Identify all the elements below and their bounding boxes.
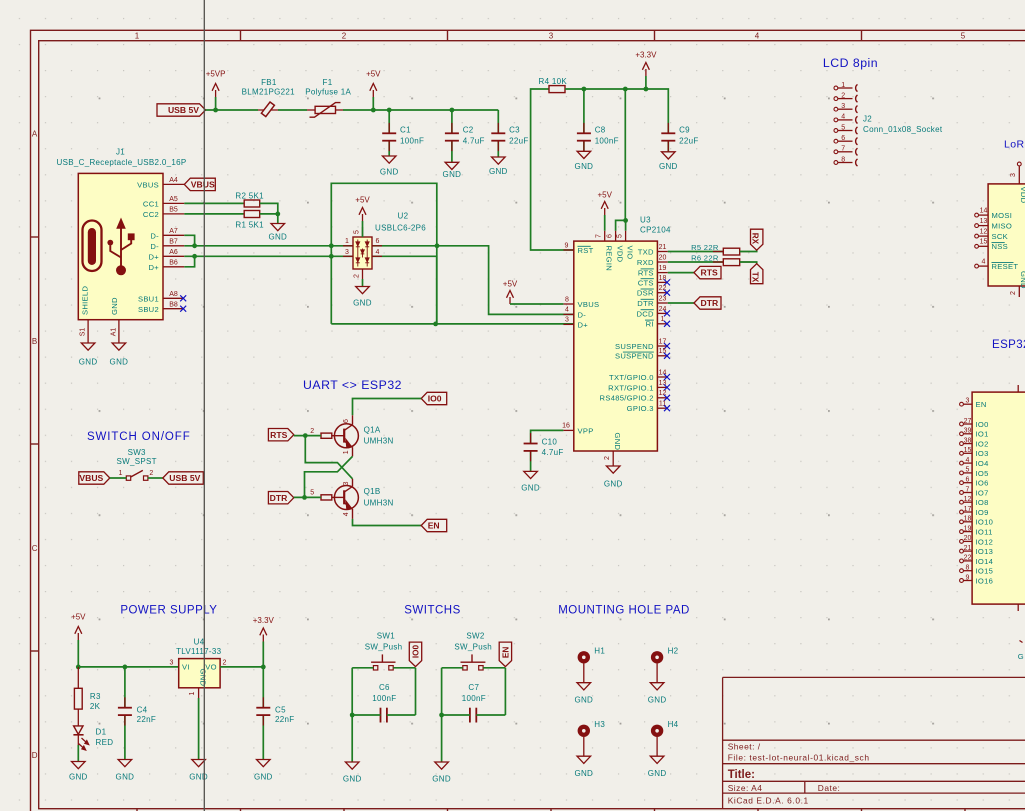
svg-text:+5V: +5V xyxy=(71,613,86,622)
capacitor C9 xyxy=(667,123,669,133)
ground under J1 shield xyxy=(81,343,95,350)
svg-text:GPIO.3: GPIO.3 xyxy=(627,404,654,413)
global label DTR at Q1B xyxy=(268,492,293,504)
svg-text:VBUS: VBUS xyxy=(137,180,159,189)
no-connect U3 pin 12 xyxy=(664,395,670,401)
wire D- A7 jog xyxy=(184,235,194,246)
U2 pin 2 bottom xyxy=(362,269,364,279)
svg-text:GND: GND xyxy=(613,433,622,451)
svg-text:DTR: DTR xyxy=(637,299,654,308)
wire VDD VIO branch xyxy=(616,220,626,230)
svg-text:IO2: IO2 xyxy=(976,440,989,449)
ESP32 bottom pin stub xyxy=(1017,604,1019,611)
svg-text:IO0: IO0 xyxy=(976,420,989,429)
junction D- at J1 xyxy=(192,243,197,248)
junction VDD branch xyxy=(623,87,628,92)
wire D- through U2 xyxy=(331,246,574,315)
svg-text:+3.3V: +3.3V xyxy=(253,616,275,625)
ground under J1 gnd pin xyxy=(112,343,126,350)
svg-text:A5: A5 xyxy=(169,196,178,203)
transistor Q1B UMH3N xyxy=(334,486,358,510)
svg-text:20: 20 xyxy=(659,254,667,261)
U3 pin 16 VPP xyxy=(563,429,573,431)
svg-text:4: 4 xyxy=(343,512,350,516)
svg-text:SHIELD: SHIELD xyxy=(80,286,89,315)
svg-text:RXT/GPIO.1: RXT/GPIO.1 xyxy=(608,383,654,392)
svg-text:RTS: RTS xyxy=(701,268,718,278)
svg-text:H3: H3 xyxy=(594,720,605,729)
svg-text:IO10: IO10 xyxy=(976,518,994,527)
ground under C5 xyxy=(257,760,271,767)
U2 pin 5 top xyxy=(362,227,364,237)
wire VDD/VIO vertical xyxy=(624,89,626,220)
svg-text:SW1: SW1 xyxy=(377,632,395,641)
global label DTR at U3 xyxy=(694,297,721,309)
svg-text:CTS: CTS xyxy=(638,278,654,287)
svg-text:LCD 8pin: LCD 8pin xyxy=(823,56,878,70)
svg-text:UMH3N: UMH3N xyxy=(364,498,394,507)
no-connect U3 pin 13 xyxy=(664,384,670,390)
svg-text:VDD: VDD xyxy=(1019,187,1025,204)
svg-text:9: 9 xyxy=(966,574,970,581)
ground under U3 xyxy=(606,466,620,473)
svg-text:22nF: 22nF xyxy=(275,715,294,724)
ESP32 pin 22 IO14 xyxy=(960,559,964,563)
svg-text:+3.3V: +3.3V xyxy=(635,51,657,60)
wire FB1 to F1 xyxy=(278,109,307,111)
U3 pin 13 RXT/GPIO.1 xyxy=(657,386,667,388)
no-connect U3 pin 17 xyxy=(664,343,670,349)
wire SW2 right down to cap xyxy=(504,668,506,715)
ESP32 pin 17 IO9 xyxy=(960,510,964,514)
svg-text:GND: GND xyxy=(648,695,667,704)
mounting hole H3 xyxy=(578,725,590,737)
svg-text:GND: GND xyxy=(343,775,362,784)
svg-text:C2: C2 xyxy=(463,126,474,135)
ground under C1 xyxy=(382,156,396,163)
U4 pin 1 gnd xyxy=(198,688,200,698)
svg-text:27: 27 xyxy=(964,418,972,425)
svg-text:1: 1 xyxy=(119,470,123,477)
svg-text:SUSPEND: SUSPEND xyxy=(615,352,654,361)
connector J1 USB_C_Receptacle_USB2.0_16P xyxy=(78,173,163,319)
wire SW2 right xyxy=(483,667,505,669)
svg-text:3: 3 xyxy=(170,660,174,667)
global label VBUS at J1 xyxy=(184,178,215,190)
wire C10 bottom lead xyxy=(530,451,532,472)
svg-text:VPP: VPP xyxy=(578,426,594,435)
U2 pin 6 xyxy=(372,245,382,247)
svg-text:DTR: DTR xyxy=(701,298,719,308)
wire D+ to U3 xyxy=(436,323,574,325)
svg-text:B8: B8 xyxy=(169,301,178,308)
wire R5 to RX xyxy=(740,250,757,251)
wire RST vertical from R4 xyxy=(531,89,574,250)
svg-text:5: 5 xyxy=(841,124,845,131)
J1 usb icon xyxy=(83,221,102,272)
svg-text:A: A xyxy=(32,130,38,139)
U3 pin 15 SUSPEND xyxy=(657,355,667,357)
svg-text:CC1: CC1 xyxy=(143,199,159,208)
svg-text:IO16: IO16 xyxy=(976,576,994,585)
wire CC1 to R2 xyxy=(184,202,244,204)
svg-text:GND: GND xyxy=(574,769,593,778)
ic U2 USBLC6-2P6 xyxy=(353,237,372,269)
Q1B pin 4 emitter stub xyxy=(352,509,354,519)
svg-text:EN: EN xyxy=(976,400,987,409)
wire C3 bottom lead xyxy=(497,141,499,157)
LoRa pin 3 VDD xyxy=(1017,162,1021,166)
svg-text:+5VP: +5VP xyxy=(206,70,226,79)
U3 pin 4 D- xyxy=(563,313,573,315)
junction U2 left loop D+ xyxy=(329,254,334,259)
svg-text:100nF: 100nF xyxy=(595,136,619,145)
svg-text:DCD: DCD xyxy=(636,309,654,318)
svg-text:4: 4 xyxy=(755,32,760,41)
U3 pin 19 RTS xyxy=(657,272,667,274)
svg-text:6: 6 xyxy=(607,234,614,238)
svg-text:TX: TX xyxy=(751,272,760,283)
ground under C4 xyxy=(118,760,132,767)
wire R6 to TX xyxy=(740,262,757,264)
ground under C10 xyxy=(524,471,538,478)
svg-text:3: 3 xyxy=(343,481,350,485)
wire U2 pin2 to gnd xyxy=(362,279,364,287)
svg-text:USBLC6-2P6: USBLC6-2P6 xyxy=(375,224,426,233)
junction DTR branch xyxy=(302,495,307,500)
ground under SW1 xyxy=(345,762,359,769)
svg-text:5: 5 xyxy=(310,490,314,497)
J1 pin B8 xyxy=(163,308,184,310)
ground under C3 xyxy=(492,157,506,164)
svg-text:File: test-Iot-neural-01.kicad: File: test-Iot-neural-01.kicad_sch xyxy=(728,752,870,762)
global label IO0 at SW1 xyxy=(409,642,421,667)
svg-text:VI: VI xyxy=(182,663,190,672)
J2 pin 2 xyxy=(834,97,838,101)
junction C5 tap xyxy=(261,665,266,670)
ESP32 pin 20 IO12 xyxy=(960,540,964,544)
svg-text:IO4: IO4 xyxy=(976,459,989,468)
resistor R4 10K xyxy=(549,86,565,93)
svg-text:USB_C_Receptacle_USB2.0_16P: USB_C_Receptacle_USB2.0_16P xyxy=(57,158,187,167)
svg-text:VBUS: VBUS xyxy=(578,300,600,309)
junction +5VP node xyxy=(213,108,218,113)
svg-text:B6: B6 xyxy=(169,259,178,266)
wire SW1 left xyxy=(352,667,373,669)
ESP32 pin 21 IO13 xyxy=(960,549,964,553)
capacitor C4 xyxy=(124,697,126,707)
no-connect U3 pin 22 xyxy=(664,290,670,296)
svg-text:C3: C3 xyxy=(509,126,520,135)
no-connect J1 SBU2 xyxy=(180,306,186,312)
svg-text:RI: RI xyxy=(646,320,654,329)
svg-text:IO3: IO3 xyxy=(976,449,989,458)
wire C2 bottom lead xyxy=(451,141,453,163)
wire RTS to Q1A base xyxy=(294,435,321,437)
svg-text:C: C xyxy=(32,544,38,553)
svg-text:RS485/GPIO.2: RS485/GPIO.2 xyxy=(600,394,654,403)
svg-text:Polyfuse 1A: Polyfuse 1A xyxy=(305,88,351,97)
svg-text:8: 8 xyxy=(565,296,569,303)
svg-text:J2: J2 xyxy=(863,115,872,124)
svg-text:38: 38 xyxy=(964,437,972,444)
svg-text:B: B xyxy=(32,337,37,346)
svg-text:GND: GND xyxy=(198,669,207,687)
svg-text:GND: GND xyxy=(489,167,508,176)
ground under D1 xyxy=(72,762,86,769)
wire RTS pin to label xyxy=(668,272,694,274)
wire C8 bottom lead xyxy=(583,141,585,152)
power +3.3V at supply xyxy=(262,642,264,667)
svg-text:39: 39 xyxy=(964,428,972,435)
svg-text:SUSPEND: SUSPEND xyxy=(615,342,654,351)
wire IO0 to Q1A collector xyxy=(353,399,422,416)
svg-text:1: 1 xyxy=(345,238,349,245)
svg-text:2: 2 xyxy=(223,660,227,667)
wire C3 top lead xyxy=(497,110,499,133)
J2 pin 5 xyxy=(834,129,838,133)
svg-text:F1: F1 xyxy=(323,78,333,87)
svg-text:R4 10K: R4 10K xyxy=(539,77,568,86)
svg-text:RST: RST xyxy=(578,246,594,255)
wire C6 right lead xyxy=(387,714,416,716)
wire D- main xyxy=(184,245,331,247)
capacitor C6 horizontal xyxy=(380,708,382,723)
svg-text:IO9: IO9 xyxy=(976,508,989,517)
J2 pin 8 xyxy=(834,161,838,165)
svg-text:4.7uF: 4.7uF xyxy=(542,448,564,457)
Q1B base resistor xyxy=(321,495,332,500)
svg-text:RED: RED xyxy=(96,738,114,747)
U2 pin 4 xyxy=(372,255,382,257)
svg-text:S1: S1 xyxy=(80,328,87,337)
wire U4 gnd xyxy=(198,698,200,760)
svg-text:IO0: IO0 xyxy=(428,394,442,404)
capacitor C1 xyxy=(388,123,390,133)
ground under R1/R2 xyxy=(271,224,285,231)
svg-text:SW_Push: SW_Push xyxy=(365,643,403,652)
ESP32 pin 5 IO5 xyxy=(960,471,964,475)
svg-text:13: 13 xyxy=(980,218,988,225)
ESP32 pin 8 IO15 xyxy=(960,569,964,573)
svg-text:14: 14 xyxy=(980,208,988,215)
U3 pin 3 D+ xyxy=(563,323,573,325)
J1 pin B5 xyxy=(163,213,184,215)
ESP32 pin 39 IO1 xyxy=(960,432,964,436)
wire VIO stub xyxy=(625,220,627,230)
global label RTS at Q1A xyxy=(268,429,293,441)
svg-text:DSR: DSR xyxy=(637,289,654,298)
wire RXD to R6 xyxy=(668,261,724,263)
svg-text:100nF: 100nF xyxy=(400,136,424,145)
J2 pin 7 xyxy=(834,150,838,154)
wire SW2 left down to cap xyxy=(441,668,443,762)
svg-text:U2: U2 xyxy=(398,212,409,221)
svg-text:R3: R3 xyxy=(90,692,101,701)
LoRa pin 13 MISO xyxy=(975,224,979,228)
ground under H2 xyxy=(650,683,664,690)
led D1 RED xyxy=(77,709,79,726)
ESP32 stray pin tick xyxy=(1020,641,1023,643)
resistor R2 5K1 xyxy=(244,200,260,207)
svg-text:BLM21PG221: BLM21PG221 xyxy=(242,88,296,97)
svg-text:GND: GND xyxy=(110,358,129,367)
svg-text:1: 1 xyxy=(135,32,140,41)
svg-text:2: 2 xyxy=(604,456,611,460)
svg-text:4: 4 xyxy=(841,114,845,121)
svg-text:5: 5 xyxy=(966,467,970,474)
svg-text:3: 3 xyxy=(966,398,970,405)
wire VBUS to SW3 xyxy=(110,477,127,479)
svg-text:Sheet: /: Sheet: / xyxy=(728,742,761,752)
svg-text:USB 5V: USB 5V xyxy=(168,105,199,115)
svg-text:1: 1 xyxy=(841,82,845,89)
svg-text:8: 8 xyxy=(841,156,845,163)
svg-text:C7: C7 xyxy=(468,683,479,692)
svg-text:SW_SPST: SW_SPST xyxy=(117,457,157,466)
junction C7 left xyxy=(439,713,444,718)
svg-text:D+: D+ xyxy=(148,252,159,261)
capacitor C10 xyxy=(530,433,532,443)
global label RTS at U3 xyxy=(694,266,721,278)
svg-text:6: 6 xyxy=(376,238,380,245)
svg-text:H2: H2 xyxy=(668,646,679,655)
svg-text:SW_Push: SW_Push xyxy=(454,643,492,652)
wire C2 top lead xyxy=(451,110,453,133)
svg-text:FB1: FB1 xyxy=(261,78,277,87)
global label USB 5V xyxy=(157,104,206,116)
no-connect U3 pin 18 xyxy=(664,279,670,285)
mounting hole H2 xyxy=(651,651,663,663)
svg-text:+5V: +5V xyxy=(366,70,381,79)
wire DTR cross to Q1A emitter xyxy=(305,456,353,497)
svg-text:TLV1117-33: TLV1117-33 xyxy=(176,647,222,656)
svg-text:GND: GND xyxy=(604,480,623,489)
svg-text:D+: D+ xyxy=(148,263,159,272)
wire D+ through U2 to turn xyxy=(331,256,436,324)
U3 pin 7 REGIN xyxy=(604,231,606,241)
svg-text:5: 5 xyxy=(617,234,624,238)
svg-text:22uF: 22uF xyxy=(679,136,698,145)
svg-text:REGIN: REGIN xyxy=(605,246,614,272)
junction C8 tap xyxy=(582,87,587,92)
svg-text:UART <> ESP32: UART <> ESP32 xyxy=(303,378,402,392)
resistor R1 5K1 xyxy=(244,211,260,218)
ESP32 pin 19 IO11 xyxy=(960,530,964,534)
J1 pin A7 xyxy=(163,234,184,236)
wire U4 VO to +3.3V xyxy=(220,666,263,668)
svg-text:4.7uF: 4.7uF xyxy=(463,136,485,145)
U3 pin 12 RS485/GPIO.2 xyxy=(657,397,667,399)
U2 pin 1 xyxy=(343,245,353,247)
junction +5V rail at arrow xyxy=(371,108,376,113)
svg-text:100nF: 100nF xyxy=(462,694,486,703)
ground under H1 xyxy=(577,683,591,690)
J1 pin A8 xyxy=(163,297,184,299)
svg-text:4: 4 xyxy=(376,249,380,256)
polyfuse F1 xyxy=(307,109,315,111)
svg-text:Size: A4: Size: A4 xyxy=(728,783,763,793)
wire U2 loop rectangle left/top/right xyxy=(331,183,437,324)
svg-text:A8: A8 xyxy=(169,291,178,298)
svg-text:3: 3 xyxy=(549,32,554,41)
mounting hole H4 xyxy=(651,725,663,737)
wire REGIN stub xyxy=(604,215,606,231)
svg-text:GND: GND xyxy=(659,162,678,171)
wire SW2 left xyxy=(442,667,463,669)
no-connect U3 pin 11 xyxy=(664,405,670,411)
junction D+ at J1 xyxy=(192,254,197,259)
svg-text:Q1A: Q1A xyxy=(364,425,381,434)
svg-text:GND: GND xyxy=(189,773,208,782)
svg-text:7: 7 xyxy=(966,486,970,493)
svg-text:C1: C1 xyxy=(400,126,411,135)
svg-text:TXT/GPIO.0: TXT/GPIO.0 xyxy=(609,373,654,382)
svg-text:GND: GND xyxy=(254,773,273,782)
ESP32 pin 38 IO2 xyxy=(960,442,964,446)
LoRa pin 12 SCK xyxy=(975,234,979,238)
LoRa pin 15 NSS xyxy=(975,244,979,248)
ground under H3 xyxy=(577,756,591,763)
capacitor C7 horizontal xyxy=(469,708,471,723)
svg-text:R6 22R: R6 22R xyxy=(691,254,719,263)
svg-text:2: 2 xyxy=(354,274,361,278)
ground under C2 xyxy=(445,162,459,169)
junction +3.3V arrow xyxy=(644,87,649,92)
svg-text:15: 15 xyxy=(980,239,988,246)
no-connect J1 SBU1 xyxy=(180,295,186,301)
no-connect U3 pin 14 xyxy=(664,374,670,380)
svg-text:CP2104: CP2104 xyxy=(640,226,671,235)
U3 pin 18 CTS xyxy=(657,281,667,283)
svg-text:A7: A7 xyxy=(169,228,178,235)
svg-text:RESET: RESET xyxy=(992,262,1019,271)
wire +5V to VBUS pin xyxy=(510,303,563,305)
svg-text:+5V: +5V xyxy=(355,196,370,205)
U3 pin 11 GPIO.3 xyxy=(657,407,667,409)
svg-text:IO14: IO14 xyxy=(976,557,994,566)
junction C6 left xyxy=(350,713,355,718)
wire +3.3V rail xyxy=(565,89,668,133)
svg-text:GND: GND xyxy=(648,769,667,778)
wire VPP to C10 xyxy=(531,430,564,443)
svg-text:12: 12 xyxy=(964,496,972,503)
svg-text:2: 2 xyxy=(310,428,314,435)
wire C1 bottom lead xyxy=(388,141,390,156)
svg-text:22: 22 xyxy=(964,555,972,562)
svg-text:GND: GND xyxy=(268,232,287,241)
svg-text:R5 22R: R5 22R xyxy=(691,243,719,252)
U3 pin 9 RST xyxy=(563,249,573,251)
svg-text:G: G xyxy=(1018,652,1024,661)
wire USB5V to FB1 xyxy=(206,109,259,111)
svg-text:B7: B7 xyxy=(169,238,178,245)
svg-text:POWER SUPPLY: POWER SUPPLY xyxy=(120,605,217,617)
svg-text:22nF: 22nF xyxy=(137,715,156,724)
no-connect U3 pin 24 xyxy=(664,310,670,316)
global label EN at SW2 xyxy=(499,642,511,667)
U3 pin 8 VBUS xyxy=(563,303,573,305)
U3 pin 14 TXT/GPIO.0 xyxy=(657,376,667,378)
wire Q1B emitter to EN xyxy=(353,519,422,526)
ic U3 CP2104 xyxy=(574,241,658,451)
svg-text:IO1: IO1 xyxy=(976,430,989,439)
wire C9 bottom lead xyxy=(667,141,669,152)
junction C4 tap xyxy=(123,665,128,670)
LoRa pin 14 MOSI xyxy=(975,213,979,217)
ESP32 top pin stub xyxy=(1017,385,1019,392)
J2 pin 1 xyxy=(834,86,838,90)
